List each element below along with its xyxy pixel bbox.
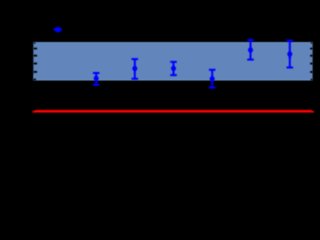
P0 tiny errors (54, 27, 62, 33)
red threshold line (33, 110, 314, 113)
P6 (287, 41, 294, 68)
P4 (209, 70, 216, 88)
P3 (170, 62, 177, 75)
P2 (132, 59, 139, 79)
y-axis ticks right (black notches over band) (310, 42, 313, 80)
P1 (93, 73, 100, 85)
y-axis ticks left (black notches over band) (34, 42, 38, 80)
theory band (33, 42, 312, 80)
data points with error bars (54, 27, 293, 88)
P5 (247, 40, 254, 60)
markers (94, 48, 293, 82)
